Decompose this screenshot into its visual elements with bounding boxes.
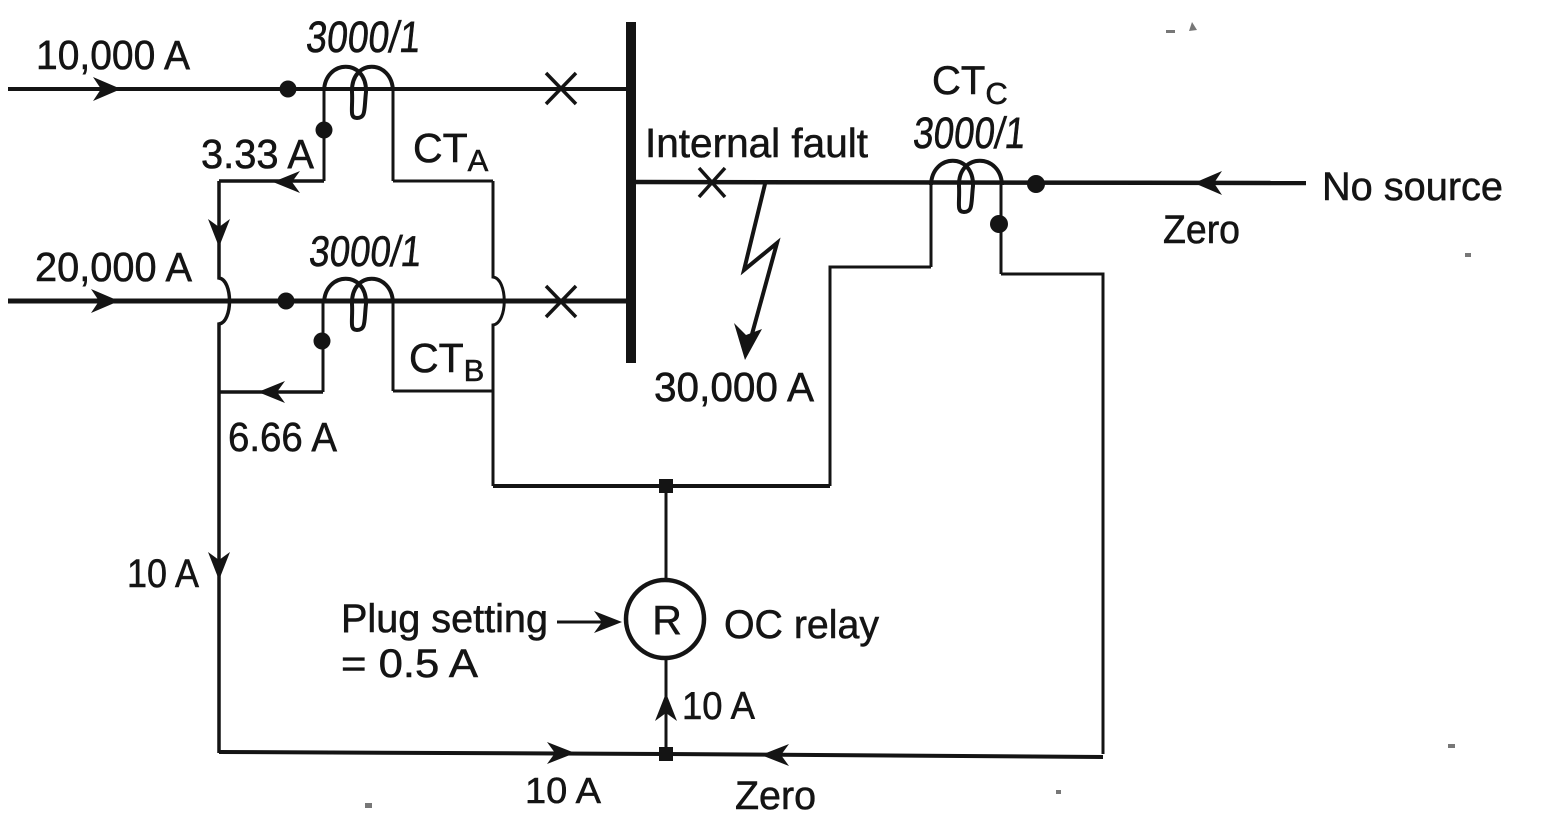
- svg-text:OC relay: OC relay: [724, 603, 879, 647]
- svg-text:R: R: [652, 597, 682, 643]
- svg-text:10 A: 10 A: [127, 552, 199, 596]
- svg-text:Plug setting: Plug setting: [341, 597, 548, 641]
- svg-text:6.66 A: 6.66 A: [228, 414, 338, 460]
- svg-text:3000/1: 3000/1: [307, 228, 424, 276]
- svg-text:30,000 A: 30,000 A: [654, 364, 815, 410]
- svg-text:3.33 A: 3.33 A: [201, 131, 315, 177]
- svg-text:3000/1: 3000/1: [304, 13, 423, 62]
- svg-text:Zero: Zero: [1163, 208, 1240, 252]
- svg-text:= 0.5 A: = 0.5 A: [341, 642, 478, 686]
- svg-text:Zero: Zero: [735, 774, 816, 818]
- svg-text:10 A: 10 A: [525, 770, 601, 811]
- svg-text:Internal fault: Internal fault: [645, 120, 869, 166]
- svg-text:10,000 A: 10,000 A: [36, 32, 191, 78]
- svg-text:No source: No source: [1322, 165, 1503, 209]
- svg-text:3000/1: 3000/1: [911, 109, 1028, 158]
- svg-text:20,000 A: 20,000 A: [35, 244, 193, 290]
- svg-text:10 A: 10 A: [682, 685, 755, 728]
